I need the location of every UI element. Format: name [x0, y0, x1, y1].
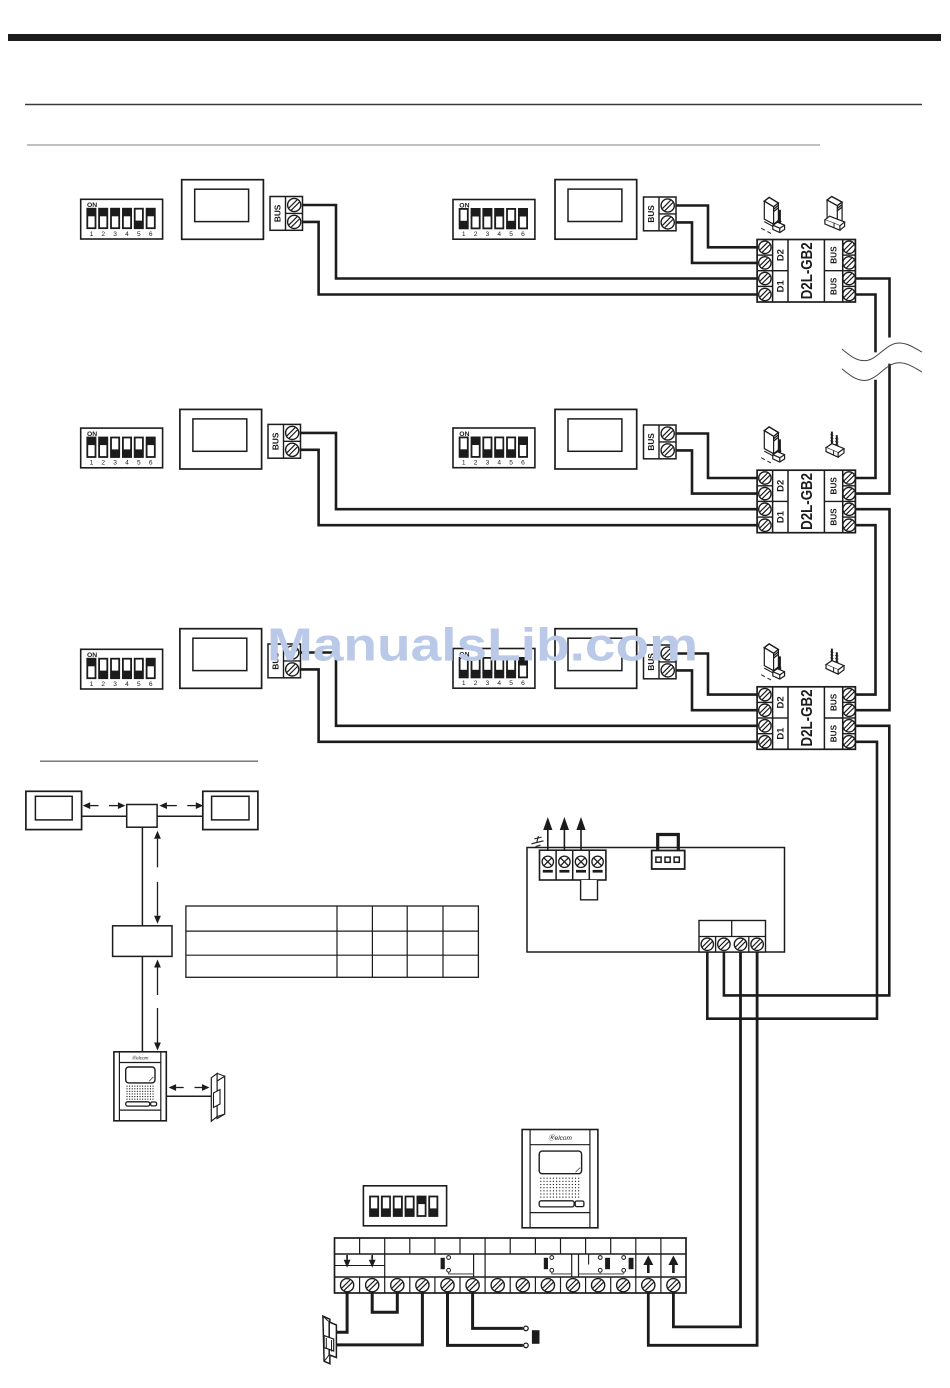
- bus up arrow cell 14: [668, 1256, 678, 1274]
- relay contact 1: [441, 1256, 474, 1274]
- svg-text:D2: D2: [776, 696, 787, 708]
- wire monitor 3B BUS+ to D2: [676, 654, 757, 695]
- audio arrows cells 1-2: [335, 1255, 385, 1268]
- arrows junction / monitor C2: [159, 802, 203, 809]
- svg-text:BUS: BUS: [273, 204, 283, 222]
- wire monitor 2B BUS+ to D2: [676, 434, 757, 479]
- svg-text:1: 1: [462, 680, 466, 687]
- jumper J1a with pin (D2L-GB2 #1): [761, 197, 784, 233]
- svg-text:4: 4: [497, 460, 501, 467]
- PSU mains terminal block: [540, 850, 606, 880]
- svg-text:BUS: BUS: [830, 277, 839, 295]
- wire terminal 4 to door strike: [337, 1293, 422, 1345]
- DIP switch S1B (monitor 1B address): [453, 200, 535, 240]
- wire PSU terminal 4 to panel terminal 13: [648, 952, 757, 1345]
- svg-text:6: 6: [149, 681, 153, 688]
- wire distributor to door station: [141, 956, 143, 1051]
- door panel DS2: [522, 1130, 598, 1228]
- svg-text:5: 5: [509, 460, 513, 467]
- D2L-GB2 #3 (distributor terminal block): [757, 687, 855, 750]
- svg-text:2: 2: [474, 231, 478, 238]
- wire junction to distributor: [141, 827, 143, 926]
- bus riser wire GB2#2 to GB2#3 (outer): [855, 509, 889, 710]
- svg-text:2: 2: [474, 680, 478, 687]
- svg-text:3: 3: [486, 680, 490, 687]
- bus riser wire GB2#1 to GB2#2 (outer): [855, 279, 889, 494]
- arrows monitor C1 / junction: [83, 802, 126, 809]
- monitor 1B: [555, 180, 637, 240]
- section rule: [40, 760, 258, 762]
- svg-text:BUS: BUS: [830, 693, 839, 711]
- jumper header J2b (D2L-GB2 #2): [826, 432, 844, 458]
- svg-text:D1: D1: [776, 280, 787, 293]
- svg-text:3: 3: [113, 231, 117, 238]
- svg-text:4: 4: [497, 231, 501, 238]
- power supply unit outline: [527, 848, 785, 953]
- DIP switch door panel: [363, 1186, 446, 1226]
- wire monitor 3A BUS- to D1: [301, 669, 758, 741]
- svg-text:2: 2: [101, 231, 105, 238]
- BUS terminal monitor 1A: [270, 197, 303, 231]
- svg-text:D2L-GB2: D2L-GB2: [799, 689, 816, 746]
- svg-text:1: 1: [90, 681, 94, 688]
- DIP switch S2B (monitor 2B address): [453, 428, 535, 468]
- svg-text:2: 2: [101, 460, 105, 467]
- svg-text:2: 2: [101, 681, 105, 688]
- fuse holder: [581, 880, 598, 900]
- svg-text:4: 4: [125, 460, 129, 467]
- svg-text:5: 5: [137, 681, 141, 688]
- monitor 3A: [180, 629, 262, 689]
- wiring table: [186, 906, 479, 977]
- wire monitor 1A BUS+ to D1: [303, 205, 758, 279]
- svg-text:D2L-GB2: D2L-GB2: [799, 242, 816, 299]
- svg-text:5: 5: [509, 231, 513, 238]
- DIP switch S1A (monitor 1A address): [81, 199, 163, 239]
- svg-text:1: 1: [90, 460, 94, 467]
- svg-text:1: 1: [90, 231, 94, 238]
- relay contact 2: [544, 1256, 572, 1274]
- svg-text:BUS: BUS: [830, 724, 839, 742]
- svg-text:BUS: BUS: [646, 205, 656, 223]
- door strike: [323, 1316, 337, 1364]
- wire monitor 2B BUS- to D2: [676, 450, 757, 493]
- svg-text:6: 6: [521, 460, 525, 467]
- junction box: [127, 805, 157, 828]
- svg-text:D1: D1: [776, 510, 787, 523]
- door panel terminal strip: [335, 1238, 687, 1293]
- up/down arrows distributor-door station: [154, 960, 161, 1051]
- svg-text:5: 5: [137, 460, 141, 467]
- PSU bus output terminal: [699, 921, 766, 953]
- svg-text:4: 4: [497, 680, 501, 687]
- programming connector: [652, 835, 685, 870]
- bus riser wire GB2#1 to GB2#2 (inner): [855, 295, 875, 479]
- wire monitor 1B BUS+ to D2: [676, 206, 757, 248]
- monitor 2A: [180, 409, 262, 469]
- svg-text:Ⓡelcom: Ⓡelcom: [132, 1056, 149, 1061]
- svg-text:BUS: BUS: [830, 246, 839, 264]
- up/down arrows junction-distributor: [154, 831, 161, 924]
- wire junction to C2: [157, 815, 203, 817]
- mains arrows (L N PE): [543, 817, 585, 850]
- wire monitor 3B BUS- to D2: [676, 670, 757, 710]
- svg-text:BUS: BUS: [830, 508, 839, 526]
- wire monitor 3A BUS+ to D1: [301, 653, 758, 726]
- wire door station to strike: [166, 1095, 211, 1097]
- BUS terminal monitor 3B: [644, 645, 677, 679]
- svg-text:D2L-GB2: D2L-GB2: [799, 473, 816, 530]
- door contacts: [579, 1254, 634, 1274]
- wire C1 to junction: [82, 815, 127, 817]
- svg-text:D1: D1: [776, 727, 787, 740]
- svg-text:3: 3: [113, 681, 117, 688]
- svg-text:D2: D2: [776, 480, 787, 492]
- svg-text:ManualsLib.com: ManualsLib.com: [267, 619, 698, 671]
- svg-text:6: 6: [149, 231, 153, 238]
- BUS terminal monitor 3A: [268, 644, 301, 678]
- wire PSU terminal 3 to panel terminal 14: [673, 952, 740, 1327]
- svg-text:2: 2: [474, 460, 478, 467]
- D2L-GB2 #2 (distributor terminal block): [757, 470, 855, 533]
- svg-text:5: 5: [137, 231, 141, 238]
- monitor C1: [26, 791, 82, 829]
- DIP switch S3B (monitor 3B address): [453, 649, 535, 689]
- jumper J3a with pin (D2L-GB2 #3): [761, 644, 784, 680]
- svg-text:3: 3: [486, 460, 490, 467]
- wire terminal 5 to push button: [448, 1293, 523, 1345]
- monitor 2B: [555, 409, 637, 469]
- monitor 3B: [555, 629, 637, 689]
- BUS terminal monitor 1B: [644, 197, 677, 231]
- svg-text:4: 4: [125, 681, 129, 688]
- svg-text:1: 1: [462, 460, 466, 467]
- arrows door station / strike: [169, 1084, 210, 1091]
- BUS terminal monitor 2B: [644, 425, 677, 459]
- wire loop terminals 2-3: [372, 1293, 397, 1312]
- svg-text:4: 4: [125, 231, 129, 238]
- push button: [524, 1326, 540, 1348]
- wire terminal 6 to push button: [473, 1293, 523, 1328]
- wire monitor 1A BUS- to D1: [303, 222, 758, 295]
- DIP switch S3A (monitor 3A address): [81, 649, 163, 689]
- monitor C2: [203, 791, 258, 829]
- cable break squiggle: [842, 343, 922, 380]
- BUS terminal monitor 2A: [268, 424, 301, 458]
- svg-text:D2: D2: [776, 249, 787, 261]
- monitor 1A: [182, 180, 264, 240]
- svg-text:BUS: BUS: [830, 477, 839, 495]
- distributor box: [113, 926, 172, 957]
- header rule: [25, 104, 922, 106]
- bus up arrow cell 13: [643, 1256, 653, 1274]
- jumper J1b cap (D2L-GB2 #1): [825, 197, 845, 231]
- earth symbol: [532, 836, 544, 846]
- svg-text:BUS: BUS: [271, 432, 281, 450]
- svg-text:3: 3: [113, 460, 117, 467]
- wire terminal 1 to door strike: [336, 1293, 347, 1332]
- wire monitor 2A BUS- to D1: [301, 450, 758, 525]
- wire monitor 2A BUS+ to D1: [301, 433, 758, 509]
- door strike plate (small): [211, 1073, 224, 1121]
- top title bar: [8, 34, 941, 41]
- svg-text:1: 1: [462, 231, 466, 238]
- svg-text:6: 6: [521, 680, 525, 687]
- D2L-GB2 #1 (distributor terminal block): [757, 240, 855, 303]
- sub header rule: [27, 144, 820, 146]
- svg-text:6: 6: [521, 231, 525, 238]
- svg-text:Ⓡelcom: Ⓡelcom: [548, 1134, 572, 1142]
- svg-text:3: 3: [486, 231, 490, 238]
- jumper J2a with pin (D2L-GB2 #2): [761, 427, 784, 463]
- svg-text:5: 5: [509, 680, 513, 687]
- bus riser wire GB2#2 to GB2#3 (inner): [855, 525, 875, 694]
- bus wire GB2#3 to PSU terminal 1: [707, 742, 877, 1019]
- wire monitor 1B BUS- to D2: [676, 222, 757, 263]
- door station DS1: [114, 1052, 166, 1121]
- jumper header J3b (D2L-GB2 #3): [826, 649, 844, 675]
- DIP switch S2A (monitor 2A address): [81, 428, 163, 468]
- svg-text:BUS: BUS: [646, 433, 656, 451]
- svg-text:6: 6: [149, 460, 153, 467]
- bus wire GB2#3 to PSU terminal 2: [724, 726, 889, 996]
